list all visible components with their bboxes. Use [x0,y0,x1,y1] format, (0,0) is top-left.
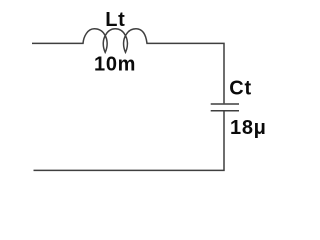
svg-text:Ct: Ct [229,78,252,100]
svg-text:10m: 10m [94,53,136,75]
svg-text:18μ: 18μ [230,117,267,139]
svg-text:Lt: Lt [105,9,125,31]
